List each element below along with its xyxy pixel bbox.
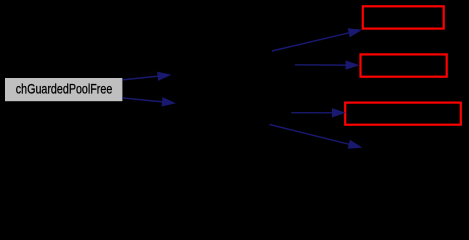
svg-text:chGuardedPoolFree: chGuardedPoolFree [16,81,113,97]
